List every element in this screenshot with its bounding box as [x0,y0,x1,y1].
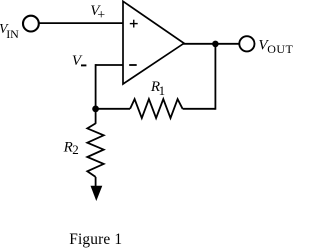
resistor R2 zigzag [87,123,103,176]
label V_IN [0,21,19,41]
svg-text:Figure 1: Figure 1 [69,231,122,248]
wire feedback vertical from R1 up to node B [214,44,216,110]
resistor R1 zigzag [130,99,183,118]
op-amp U1 triangle body [123,1,184,84]
svg-text:+: + [97,8,105,23]
label V_- node [72,53,87,69]
wire op-amp output to VOUT terminal [183,43,239,45]
wire inverting input horizontal segment [96,64,123,66]
terminal VOUT output circle [239,36,254,51]
svg-text:V: V [72,53,83,69]
wire VIN terminal to op-amp noninverting input [39,22,123,24]
node B junction dot on output [212,41,219,48]
svg-text:OUT: OUT [267,42,293,56]
node A junction dot [92,106,99,113]
op-amp plus input marking [130,20,138,28]
svg-text:1: 1 [159,83,166,98]
wire R1 right lead [183,108,216,110]
ground arrow symbol [91,186,103,201]
op-amp minus input marking [129,64,137,66]
svg-text:2: 2 [72,142,79,157]
wire R2 bottom lead to ground arrow [95,177,97,189]
label R2 [63,140,79,157]
label R1 [150,79,165,98]
terminal VIN input circle [23,16,39,32]
label V_OUT [258,38,293,56]
wire inverting input vertical segment down to node A [95,64,97,109]
label V_+ node [90,3,105,23]
svg-text:IN: IN [6,27,19,41]
wire node A down to R2 top lead [95,109,97,124]
wire node A to R1 left lead [96,108,131,110]
